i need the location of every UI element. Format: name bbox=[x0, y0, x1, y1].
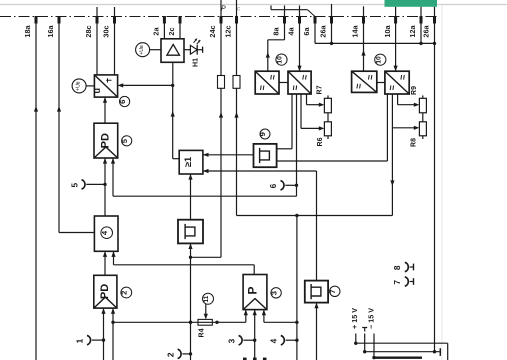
wire P in3 from bus bbox=[263, 310, 265, 323]
isolation amplifier D bbox=[385, 71, 409, 94]
wire 26a-left above frame bbox=[331, 4, 333, 17]
wire amplifier to LED bbox=[184, 49, 190, 51]
circled 7 bbox=[330, 286, 340, 296]
terminal 12c pin tick and label bbox=[235, 16, 238, 24]
svg-text:+ 15 V: + 15 V bbox=[350, 308, 359, 329]
junction amplifier/u-i/or-gate bbox=[171, 84, 174, 87]
frame border (dash-dot) bbox=[0, 16, 437, 18]
svg-text:7: 7 bbox=[328, 289, 337, 293]
LED H1 bbox=[190, 45, 197, 54]
arrowhead or-gate bottom bbox=[188, 174, 192, 180]
svg-text:R4: R4 bbox=[199, 328, 206, 337]
terminal 26a pin tick and label bbox=[433, 16, 436, 24]
wire into u/i bottom bbox=[104, 97, 106, 123]
junction terminal 1 bbox=[102, 338, 105, 341]
PD2 input arrows bbox=[101, 308, 105, 314]
resistor R6 bbox=[324, 122, 331, 136]
junction terminal 6 bbox=[295, 184, 298, 187]
wire 30c to u/i converter bbox=[114, 24, 116, 75]
arrow on 24c wire bbox=[219, 112, 223, 118]
pulse block P (3) bbox=[243, 275, 267, 310]
wire +UB to amplifier bbox=[150, 49, 161, 51]
terminal 2a pin tick and label bbox=[163, 16, 166, 24]
terminal 28c pin tick and label bbox=[96, 16, 99, 24]
wire bus to P block top bbox=[253, 265, 255, 275]
circled 6 bbox=[120, 96, 130, 106]
arrow on 16a wire bbox=[57, 106, 61, 112]
junction PD2-in2 / R4 bus bbox=[111, 321, 114, 324]
wire isolator A to B bbox=[279, 82, 288, 84]
pulse shaper bottom arrow bbox=[188, 243, 192, 249]
pulse shaper block (7) bbox=[305, 281, 328, 303]
bus block4-in2 to P block bbox=[114, 264, 255, 266]
supply circle +UB (u/i) bbox=[72, 79, 86, 93]
terminal 2c pin tick and label bbox=[179, 16, 182, 24]
arrow on bus215 drop bbox=[390, 180, 394, 186]
wire 24c to pulse shaper branch bbox=[191, 256, 222, 258]
or-gate input wire from pulse shaper 7 bbox=[203, 170, 317, 172]
terminal 16a pin tick and label bbox=[58, 16, 61, 24]
wire 4a to isolator B bbox=[299, 24, 301, 72]
wire 161 up to isolator D tap1 bbox=[386, 94, 388, 161]
isolator B tap to R7 bbox=[306, 94, 308, 105]
arrow on or-gate output wire bbox=[171, 111, 175, 117]
terminal 24c pin tick and label bbox=[220, 16, 223, 24]
pulse shaper block (middle) bbox=[178, 220, 203, 244]
P input arrows bbox=[244, 310, 248, 316]
arrowhead into R7 bbox=[319, 103, 325, 107]
wire 26a-left to bus bbox=[331, 24, 333, 44]
svg-text:14a: 14a bbox=[351, 24, 360, 37]
wire amplifier output down bbox=[172, 62, 174, 85]
svg-text:R9: R9 bbox=[411, 86, 418, 95]
wire box9 lower output bbox=[277, 160, 388, 162]
circled 5 bbox=[122, 136, 132, 146]
wire 10a above frame bbox=[395, 7, 397, 17]
wire amplifier junction to u/i input bbox=[121, 84, 173, 86]
wire 28c to u/i converter bbox=[96, 24, 98, 75]
circled 10 left bbox=[276, 54, 287, 65]
svg-text:8a: 8a bbox=[272, 27, 281, 36]
svg-text:12c: 12c bbox=[224, 25, 233, 37]
arrowhead into u/i bottom bbox=[103, 97, 107, 103]
wire 18a down bbox=[35, 24, 37, 360]
wire block4 in1 from PD2 bbox=[104, 251, 106, 275]
junction 24c branch bbox=[189, 256, 192, 259]
svg-text:u: u bbox=[92, 88, 102, 94]
svg-text:5: 5 bbox=[69, 183, 79, 188]
junction terminal 5 bbox=[103, 183, 106, 186]
phase detector PD (2) bbox=[94, 275, 117, 308]
or-gate output wire bbox=[173, 158, 180, 160]
svg-text:2c: 2c bbox=[167, 27, 176, 35]
terminal 14a pin tick and label bbox=[362, 16, 365, 24]
arrowhead or-gate in1 bbox=[203, 153, 209, 157]
link R7-R6 bbox=[327, 113, 329, 122]
wire 14a above frame bbox=[363, 6, 365, 16]
resistor on 12c bbox=[236, 24, 238, 76]
bus 6a/26a common bbox=[314, 24, 316, 44]
arrow on 12c wire bbox=[234, 112, 238, 118]
wire 28c above frame bbox=[96, 7, 98, 17]
supply circle +UB (amplifier) bbox=[136, 43, 150, 57]
svg-text:6a: 6a bbox=[302, 27, 311, 36]
bus PD5-in2 to isolator-B tap bbox=[113, 195, 297, 197]
page rule (light gray vertical column separator) bbox=[441, 5, 443, 360]
wire isolator C to D bbox=[377, 82, 385, 84]
svg-text:PD: PD bbox=[99, 133, 111, 148]
terminal 10a pin tick and label bbox=[394, 16, 397, 24]
wire 2c to amplifier bbox=[179, 24, 181, 39]
isolator D tap to R8 and bus215 bbox=[391, 94, 393, 216]
junction 26a-right bbox=[433, 42, 436, 45]
wire block4 in2 down bbox=[113, 251, 115, 264]
svg-text:+Uʙ: +Uʙ bbox=[139, 45, 145, 55]
arrow on 18a wire bbox=[34, 106, 38, 112]
svg-text:2: 2 bbox=[165, 352, 175, 357]
wire 0V down bbox=[364, 334, 366, 352]
isolation amplifier B bbox=[288, 71, 311, 94]
junction right of R4 bbox=[215, 321, 218, 324]
svg-text:26a: 26a bbox=[422, 24, 431, 37]
wire -15V down bbox=[373, 334, 375, 358]
wire 26a-right above frame bbox=[434, 7, 436, 17]
wire box9 to isolator B tap1 bbox=[277, 148, 292, 150]
bottom edge tick 2 bbox=[253, 358, 257, 360]
rail +15V bbox=[356, 342, 448, 344]
svg-text:10: 10 bbox=[277, 56, 284, 64]
junction -15V rail bbox=[372, 356, 375, 359]
circled 9 bbox=[260, 129, 270, 139]
svg-text:4a: 4a bbox=[287, 27, 296, 36]
page rule (light gray horizontal, cropped table edge) bbox=[0, 4, 507, 6]
or-gate input wire from box 9 bbox=[203, 154, 254, 156]
PD5 input arrows bbox=[103, 158, 107, 164]
bus R4 right segment bbox=[264, 321, 297, 323]
svg-text:16a: 16a bbox=[46, 24, 55, 37]
block 4 bbox=[94, 216, 118, 251]
svg-text:≥1: ≥1 bbox=[183, 157, 193, 167]
arrowhead into R8 bbox=[414, 126, 420, 130]
svg-text:28c: 28c bbox=[84, 25, 93, 37]
wire PD5 input 2 down bbox=[112, 158, 114, 196]
wire P in2 down to edge bbox=[254, 310, 256, 360]
arrowhead into R6 bbox=[319, 126, 325, 130]
resistor R7 bbox=[327, 95, 329, 98]
isolation amplifier C bbox=[352, 71, 377, 92]
resistor R9 bbox=[422, 95, 424, 98]
wire +15V down bbox=[355, 334, 357, 344]
svg-text:6: 6 bbox=[268, 183, 278, 188]
circled 4 in block bbox=[101, 227, 113, 239]
link R9-R8 bbox=[422, 113, 424, 122]
svg-text:R8: R8 bbox=[411, 138, 418, 147]
svg-text:24c: 24c bbox=[208, 25, 217, 37]
wire 12a to bus bbox=[420, 24, 422, 44]
wire 4a above frame bbox=[299, 6, 301, 17]
u/i converter block (6) bbox=[94, 75, 117, 97]
terminal 26a pin tick and label bbox=[330, 16, 333, 24]
svg-text:10a: 10a bbox=[383, 24, 392, 37]
junction terminal 2 bbox=[189, 352, 192, 355]
svg-text:26a: 26a bbox=[319, 24, 328, 37]
svg-text:30c: 30c bbox=[102, 25, 111, 37]
rail -15V (cropped) bbox=[374, 357, 422, 359]
wire 26a-right down bbox=[434, 24, 436, 352]
svg-text:4: 4 bbox=[269, 338, 279, 343]
arrow from 11 into R4 bbox=[205, 304, 207, 315]
svg-text:P: P bbox=[246, 286, 260, 294]
resistor R4 bbox=[198, 319, 212, 325]
svg-text:8: 8 bbox=[392, 265, 402, 270]
svg-text:H1: H1 bbox=[193, 58, 200, 67]
terminal 18a pin tick and label bbox=[35, 16, 38, 24]
wire PD5 input 1 down to block 4 bbox=[104, 158, 106, 216]
wire 14a to isolator C bbox=[363, 24, 365, 72]
wire 12c above frame bbox=[236, 0, 238, 17]
svg-text:11: 11 bbox=[203, 295, 210, 302]
wire PD2 in2 down to edge bbox=[112, 308, 114, 360]
svg-text:18a: 18a bbox=[23, 24, 32, 37]
isolator D tap to R9 bbox=[397, 94, 399, 105]
terminal 4a pin tick and label bbox=[298, 16, 301, 24]
pulse shaper block 9 bbox=[254, 144, 277, 167]
label 0V ground bbox=[362, 328, 367, 332]
junction 0V rail bbox=[363, 350, 366, 353]
svg-text:9: 9 bbox=[258, 132, 267, 136]
resistor on 24c bbox=[220, 24, 222, 76]
wire 24c above frame bbox=[220, 0, 222, 17]
arrow on isolator A wire bbox=[266, 52, 270, 58]
svg-text:R6: R6 bbox=[317, 137, 324, 146]
junction R4 bus crossing bbox=[189, 321, 192, 324]
svg-text:2a: 2a bbox=[152, 27, 161, 36]
wire 12a above frame bbox=[420, 7, 422, 17]
bottom edge tick 3 bbox=[263, 358, 267, 360]
terminal 8a pin tick and label bbox=[283, 16, 286, 24]
junction left of R4 bbox=[189, 321, 192, 324]
svg-text:1: 1 bbox=[75, 338, 85, 343]
circled 2 bbox=[121, 287, 132, 298]
junction terminal 3 bbox=[253, 339, 256, 342]
wire P in1 from bus bbox=[245, 310, 247, 323]
phase detector PD (5) bbox=[94, 123, 118, 158]
isolator B tap to bus196 bbox=[296, 94, 298, 196]
wire 30c above frame bbox=[114, 7, 116, 17]
svg-text:10: 10 bbox=[376, 56, 383, 64]
junction bus215 branch down bbox=[295, 214, 298, 217]
svg-text:− 15 V: − 15 V bbox=[366, 308, 375, 329]
junction +15V rail bbox=[354, 342, 357, 345]
wire 8a jog to isolator A bbox=[284, 24, 286, 40]
svg-text:7: 7 bbox=[392, 280, 402, 285]
svg-text:12a: 12a bbox=[408, 24, 417, 37]
wire 2a to amplifier bbox=[163, 24, 165, 39]
rail 0V bbox=[365, 351, 441, 353]
arrowhead into u/i bbox=[118, 83, 124, 87]
svg-text:2: 2 bbox=[120, 291, 129, 295]
junction 26a-right on 0V rail bbox=[433, 350, 436, 353]
wire junction down to or-gate bbox=[172, 85, 174, 158]
terminal 30c pin tick and label bbox=[113, 16, 116, 24]
wire 16a down bbox=[58, 24, 60, 233]
wire 10a to isolator D bbox=[395, 24, 397, 72]
wire shaper 7 input from edge bbox=[316, 303, 318, 360]
cropped wire remnant above frame bbox=[270, 6, 272, 10]
terminal 6a pin tick and label bbox=[314, 16, 317, 24]
wire 8a above frame bbox=[284, 6, 286, 17]
block 4 input arrows bbox=[103, 251, 107, 257]
wire pulse shaper to or-gate bottom bbox=[190, 174, 192, 220]
isolation amplifier A bbox=[255, 71, 279, 94]
isolator B tap to R6 bbox=[300, 94, 302, 128]
or-gate ≥1 block bbox=[179, 150, 203, 174]
arrowhead or-gate in2 bbox=[203, 169, 209, 173]
wire pulse shaper input down to edge bbox=[190, 243, 192, 360]
bus from 12c to isolator D bbox=[237, 215, 393, 217]
arrow into isolator B bbox=[297, 66, 301, 72]
svg-text:P: P bbox=[221, 6, 226, 13]
shaper 7 bottom arrow bbox=[314, 303, 318, 309]
arrow into isolator D bbox=[394, 66, 398, 72]
wire or-gate-in2 corner down to shaper 7 top bbox=[316, 171, 318, 281]
svg-text:3: 3 bbox=[269, 291, 278, 295]
junction 12a bbox=[419, 42, 422, 45]
arrow on isolator C wire bbox=[361, 50, 365, 56]
wire 16a to block 4 bbox=[59, 232, 94, 234]
junction terminal 4 bbox=[295, 339, 298, 342]
circled 3 bbox=[271, 288, 281, 298]
wire +UB to u/i bbox=[86, 85, 94, 87]
wire branch down to connector 4 bbox=[296, 216, 298, 360]
junction 26a-left bbox=[330, 42, 333, 45]
svg-text:+Uʙ: +Uʙ bbox=[75, 81, 81, 91]
bottom edge tick 1 bbox=[243, 358, 247, 360]
amplifier block bbox=[161, 39, 184, 63]
svg-text:6: 6 bbox=[118, 100, 127, 104]
junction branch/R4 bus bbox=[295, 321, 298, 324]
circled 11 bbox=[203, 293, 214, 304]
resistor R8 bbox=[419, 122, 426, 136]
bus R4 left segment bbox=[113, 321, 246, 323]
svg-text:3: 3 bbox=[226, 338, 236, 343]
svg-text:R7: R7 bbox=[317, 85, 324, 94]
arrowhead into R9 bbox=[414, 103, 420, 107]
green header block (cropped) bbox=[385, 0, 438, 7]
circled 10 right bbox=[375, 54, 386, 65]
wire PD2 in1 down to edge bbox=[103, 308, 105, 360]
terminal 12a pin tick and label bbox=[420, 16, 423, 24]
